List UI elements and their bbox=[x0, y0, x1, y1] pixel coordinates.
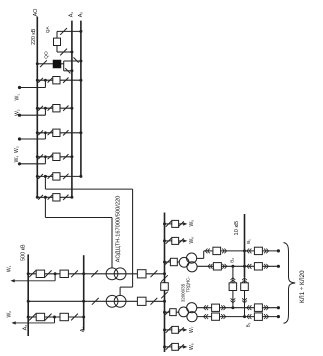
wire TRDNS1 S1 out bbox=[197, 257, 204, 259]
wire branch W8 bbox=[165, 346, 184, 348]
node bay 6 to bus A1 bbox=[70, 196, 73, 199]
disconnector bay 1 bus-side bbox=[38, 78, 43, 83]
transformer TRDNS1 secondary 1 bbox=[187, 253, 197, 263]
wire AT1 to bus3 bbox=[146, 273, 165, 275]
breaker bay 5 bbox=[53, 173, 60, 180]
svg-text:W1: W1 bbox=[15, 94, 21, 101]
breaker TRDNS1-S1 bbox=[213, 247, 221, 254]
node branch W6 bbox=[163, 239, 166, 242]
drawout chevrons bbox=[204, 305, 206, 310]
breaker W5 bbox=[172, 220, 179, 227]
line W1 with arrow bbox=[13, 280, 56, 282]
arrow W7 bbox=[183, 328, 187, 331]
breaker bus3 sectional bbox=[161, 283, 169, 291]
disconnector QA bottom bbox=[60, 49, 67, 56]
breaker TRDNS1 bbox=[170, 258, 177, 265]
breaker bbox=[60, 313, 68, 320]
breaker QA bbox=[54, 38, 61, 45]
wire 10kV feeder bbox=[245, 265, 279, 267]
node path A joins row bbox=[231, 306, 234, 309]
disconnector AT1 500kV-side bbox=[91, 270, 98, 277]
disconnector bay 4 second bbox=[48, 154, 53, 159]
node AT1-bus3 bbox=[163, 272, 166, 275]
breaker bbox=[60, 270, 68, 277]
drawout chevrons bbox=[266, 314, 268, 319]
disconnector bus3 section bottom bbox=[161, 292, 168, 299]
wire TRDNS2 S2 out bbox=[197, 316, 278, 318]
node branch W8 bbox=[163, 345, 166, 348]
drawout chevrons down bbox=[231, 301, 236, 303]
breaker W8 bbox=[172, 343, 179, 350]
disconnector bay 4 bus-side bbox=[38, 154, 43, 159]
disconnector W8 line side bbox=[179, 344, 184, 349]
breaker TRDNS2 bbox=[170, 309, 177, 316]
wire bay5 tap down bbox=[44, 176, 46, 189]
svg-text:В3: В3 bbox=[246, 322, 251, 327]
wire bay 6 row bbox=[37, 196, 72, 198]
node AT2 row on V1 bbox=[27, 300, 30, 303]
disconnector bay 6 line-side bbox=[63, 195, 68, 200]
wire QO upper branch to A2 bbox=[64, 60, 81, 62]
autotransformer AT2 winding 1 bbox=[106, 295, 118, 307]
node line W3 end bbox=[18, 137, 21, 140]
node feeder end bbox=[277, 265, 280, 268]
wire QO fork vertical bbox=[63, 61, 65, 71]
drawout chevrons bbox=[247, 305, 249, 310]
node reserve tap bbox=[231, 265, 234, 268]
wire to AT2 vertical bbox=[132, 189, 134, 287]
node bay 5 to bus A2 bbox=[79, 175, 82, 178]
disconnector bay 2 bus-side bbox=[38, 106, 43, 111]
wire AT2 to bus3 bbox=[146, 300, 165, 302]
svg-text:10 кВ: 10 кВ bbox=[234, 221, 240, 236]
bus A2 bbox=[80, 21, 82, 177]
svg-text:W2: W2 bbox=[15, 109, 21, 116]
bay 5: node on AO bus bbox=[36, 175, 39, 178]
wire 10kV feeder bbox=[245, 250, 279, 252]
disconnector QO left bbox=[40, 60, 47, 67]
svg-text:QA: QA bbox=[45, 26, 50, 34]
node on V2 bbox=[82, 316, 85, 319]
disconnector bus3 section top bbox=[161, 275, 168, 282]
svg-text:КЛ1 ÷ КЛ20: КЛ1 ÷ КЛ20 bbox=[299, 270, 306, 303]
svg-text:QO: QO bbox=[43, 51, 49, 59]
breaker TRDNS2-S2 bbox=[212, 313, 220, 320]
wire 500kV row bbox=[28, 316, 83, 318]
breaker TRDNS1-S2 bbox=[213, 263, 221, 270]
node QA-A1 bbox=[70, 51, 73, 54]
disconnector AT1 MV-side bbox=[151, 270, 158, 277]
wire QA top branch bbox=[57, 30, 81, 32]
line W2 with arrow bbox=[14, 322, 55, 324]
drawout chevrons bbox=[247, 314, 249, 319]
drawout chevrons bbox=[266, 305, 268, 310]
node line W1 end bbox=[18, 86, 21, 89]
wire bay6 tap down bbox=[44, 197, 46, 217]
node AT2-bus3 bbox=[163, 300, 166, 303]
node line W2 end bbox=[18, 114, 21, 117]
disconnector TRDNS1 bbox=[165, 260, 170, 265]
bay 1: node on AO bus bbox=[36, 79, 39, 82]
node S1-bus bbox=[243, 249, 246, 252]
disconnector QO-A1 bbox=[65, 68, 70, 73]
disconnector bay 5 second bbox=[48, 174, 53, 179]
wire into AT1 bbox=[111, 218, 113, 269]
drawout chevrons bbox=[247, 264, 249, 269]
breaker W6 bbox=[172, 237, 179, 244]
drawout chevrons down bbox=[242, 301, 247, 303]
wire line W2 bbox=[20, 114, 46, 116]
bus3 35kV section II bbox=[164, 301, 166, 352]
wire line W3 tap vertical bbox=[44, 133, 46, 139]
node feeder end bbox=[277, 315, 280, 318]
wire line W1 bbox=[20, 87, 46, 89]
node on V2 bbox=[82, 272, 85, 275]
disconnector bay 2 second bbox=[48, 106, 53, 111]
disconnector bay 4 line-side bbox=[63, 154, 68, 159]
svg-text:А1: А1 bbox=[69, 12, 75, 18]
disconnector QO-A2 bbox=[74, 57, 79, 62]
svg-text:W8: W8 bbox=[189, 343, 195, 350]
node QO-A1 bbox=[70, 69, 73, 72]
disconnector TRDNS2 bbox=[165, 310, 170, 315]
disconnector bay 5 bus-side bbox=[38, 174, 43, 179]
node feeder end bbox=[277, 306, 280, 309]
disconnector bay 1 line-side bbox=[63, 78, 68, 83]
svg-text:W3: W3 bbox=[14, 146, 20, 153]
breaker bay 1 bbox=[53, 77, 60, 84]
bus V2 (500 kV) bbox=[83, 255, 85, 330]
drawout chevrons bbox=[205, 249, 207, 254]
bus A1 bbox=[71, 21, 73, 198]
drawout chevrons bbox=[266, 249, 268, 254]
transformer TRDNS2 primary bbox=[179, 307, 189, 317]
autotransformer AT1 winding 1 bbox=[106, 268, 118, 280]
wire line W2 drop bbox=[54, 317, 56, 323]
svg-text:W5: W5 bbox=[189, 220, 195, 227]
wire line W1 tap vertical bbox=[44, 80, 46, 87]
disconnector bay 1 second bbox=[48, 78, 53, 83]
node branch W7 bbox=[163, 328, 166, 331]
wire branch W6 bbox=[165, 240, 184, 242]
disconnector bbox=[29, 314, 36, 321]
wire QO to fork bbox=[61, 63, 64, 65]
svg-text:32000/35: 32000/35 bbox=[180, 283, 185, 302]
node QO-A2 bbox=[79, 60, 82, 63]
wire TRDNS1 S2 out bbox=[197, 265, 244, 267]
wire line W2 tap vertical bbox=[44, 108, 46, 115]
node on V1 bbox=[27, 272, 30, 275]
node tap bbox=[54, 272, 57, 275]
wire TRDNS2 S1 out bbox=[197, 307, 279, 309]
node bay6 tap bbox=[44, 196, 47, 199]
node bay 5 tap junction bbox=[44, 175, 47, 178]
wire branch W5 bbox=[165, 223, 184, 225]
breaker feeder S2 bbox=[254, 313, 262, 321]
bay 3: node on AO bus bbox=[36, 131, 39, 134]
disconnector QA top bbox=[60, 28, 67, 35]
disconnector bay 3 bus-side bbox=[38, 130, 43, 135]
breaker bbox=[36, 270, 44, 277]
wire QA vertical bbox=[56, 31, 58, 38]
wire branch W7 bbox=[165, 329, 184, 331]
node feeder end bbox=[277, 249, 280, 252]
breaker QO (closed, filled) bbox=[53, 60, 61, 68]
node TRDNS1 branch bbox=[163, 261, 166, 264]
breaker path A bbox=[229, 283, 237, 291]
node QO-AO bbox=[36, 62, 39, 65]
svg-text:А2: А2 bbox=[78, 12, 84, 18]
wire bay 3 row bbox=[37, 132, 81, 134]
wire AT1 row right bbox=[84, 273, 138, 275]
svg-text:ТРДНС-: ТРДНС- bbox=[185, 276, 190, 293]
drawout chevrons bbox=[208, 264, 210, 269]
disconnector W7 line side bbox=[179, 327, 184, 332]
breaker TRDNS2-S1 bbox=[212, 304, 220, 311]
node AT2 row on V2 bbox=[82, 300, 85, 303]
drawout chevrons up bbox=[242, 278, 247, 280]
transformer TRDNS2 secondary 1 bbox=[187, 303, 197, 313]
bus3 35kV section I bbox=[164, 213, 166, 283]
drawout chevrons up bbox=[231, 278, 236, 280]
wire bus3 below sectional breaker bbox=[164, 290, 166, 301]
wire 500kV row bbox=[28, 273, 83, 275]
svg-text:В1: В1 bbox=[246, 239, 251, 244]
node bay5 tap bbox=[44, 175, 47, 178]
disconnector W5 line side bbox=[179, 221, 184, 226]
node QA-A2 bbox=[79, 30, 82, 33]
bay 6: node on AO bus bbox=[36, 196, 39, 199]
svg-text:АОДЦТН-167000/500/220: АОДЦТН-167000/500/220 bbox=[116, 196, 122, 263]
node S2-bus bbox=[243, 265, 246, 268]
disconnector W6 line side bbox=[179, 238, 184, 243]
autotransformer AT1 winding 2 bbox=[114, 268, 126, 280]
breaker AT2 MV-side bbox=[137, 297, 146, 305]
drawout chevrons bbox=[247, 249, 249, 254]
breaker bay 6 bbox=[53, 194, 60, 201]
drawout chevrons bbox=[224, 314, 226, 319]
bypass bus AO bbox=[36, 17, 38, 198]
disconnector bay 6 bus-side bbox=[38, 195, 43, 200]
wire to AT1 horizontal bbox=[45, 217, 112, 219]
wire line W1 drop bbox=[54, 274, 56, 281]
node line W4 end bbox=[18, 162, 21, 165]
wire line W4 tap vertical bbox=[44, 157, 46, 164]
svg-text:А4: А4 bbox=[80, 327, 86, 333]
breaker AT1 MV-side bbox=[137, 270, 146, 278]
breaker bay 2 bbox=[53, 105, 60, 112]
bus V1 (500 kV) bbox=[27, 254, 29, 336]
wire to AT2 horizontal bbox=[45, 188, 132, 190]
arrow W6 bbox=[183, 239, 187, 242]
disconnector bay 3 second bbox=[48, 130, 53, 135]
drawout chevrons bbox=[204, 314, 206, 319]
svg-text:W1: W1 bbox=[7, 265, 13, 272]
disconnector bay 5 line-side bbox=[63, 174, 68, 179]
node TRDNS2 branch bbox=[163, 311, 166, 314]
wire TRDNS2 branch bbox=[165, 311, 179, 313]
wire QA vertical lower bbox=[56, 46, 58, 53]
svg-text:W4: W4 bbox=[14, 156, 20, 163]
wire bay 4 row bbox=[37, 156, 72, 158]
node bay 3 to bus A2 bbox=[79, 131, 82, 134]
svg-text:W2: W2 bbox=[6, 311, 12, 318]
disconnector W6 bbox=[166, 238, 172, 244]
wire line W4 bbox=[20, 163, 46, 165]
disconnector bay 3 line-side bbox=[63, 130, 68, 135]
svg-text:500 кВ: 500 кВ bbox=[20, 244, 26, 261]
disconnector bbox=[71, 270, 78, 277]
disconnector W5 bbox=[166, 221, 172, 227]
arrow W5 bbox=[183, 222, 187, 225]
wire into AT2 bbox=[119, 287, 121, 296]
wire AT2 row bbox=[28, 300, 137, 302]
svg-text:W7: W7 bbox=[189, 326, 195, 333]
wire to AT2 elbow bbox=[120, 286, 133, 288]
transformer TRDNS1 primary bbox=[179, 257, 189, 267]
node tap bbox=[53, 316, 56, 319]
node branch W5 bbox=[163, 222, 166, 225]
svg-text:А3: А3 bbox=[22, 325, 28, 331]
brace cable group bbox=[284, 243, 296, 324]
transformer TRDNS2 secondary 2 bbox=[187, 312, 197, 322]
wire path B down bbox=[244, 277, 246, 316]
node bay 1 to bus A2 bbox=[79, 79, 82, 82]
node bay 4 tap junction bbox=[44, 155, 47, 158]
wire QO row bbox=[37, 63, 53, 65]
breaker W7 bbox=[172, 326, 179, 333]
wire TRDNS1 branch bbox=[165, 261, 180, 263]
wire QO lower branch to A1 bbox=[64, 70, 72, 72]
wire QA bottom branch bbox=[57, 51, 72, 53]
disconnector W7 bbox=[166, 327, 172, 333]
breaker bay 4 bbox=[53, 153, 60, 160]
svg-text:220 кВ: 220 кВ bbox=[31, 28, 37, 45]
wire bay 2 row bbox=[37, 107, 72, 109]
node bay 2 to bus A1 bbox=[70, 107, 73, 110]
wire bay 5 row bbox=[37, 175, 81, 177]
breaker bay 3 bbox=[53, 129, 60, 136]
drawout chevrons bbox=[224, 305, 226, 310]
disconnector bay 6 second bbox=[48, 195, 53, 200]
disconnector bbox=[29, 270, 36, 277]
svg-text:АО: АО bbox=[33, 8, 39, 17]
transformer TRDNS1 secondary 2 bbox=[187, 262, 197, 272]
disconnector bay 2 line-side bbox=[63, 106, 68, 111]
wire line W3 bbox=[20, 138, 46, 140]
node bay 3 tap junction bbox=[44, 131, 47, 134]
disconnector bbox=[45, 314, 52, 321]
node bay 1 tap junction bbox=[44, 79, 47, 82]
breaker feeder bbox=[254, 247, 262, 254]
disconnector bbox=[71, 314, 78, 321]
breaker feeder bbox=[254, 263, 262, 270]
disconnector bbox=[45, 270, 52, 277]
breaker path B bbox=[241, 283, 249, 291]
node on V1 bbox=[27, 316, 30, 319]
disconnector AT2 500kV-side bbox=[92, 298, 99, 305]
node bay 2 tap junction bbox=[44, 107, 47, 110]
wire bay 1 row bbox=[37, 79, 81, 81]
drawout chevrons bbox=[266, 264, 268, 269]
breaker feeder S1 bbox=[254, 304, 262, 312]
autotransformer AT2 winding 2 bbox=[114, 295, 126, 307]
bay 4: node on AO bus bbox=[36, 155, 39, 158]
disconnector W8 bbox=[166, 344, 172, 350]
arrow W8 bbox=[183, 345, 187, 348]
drawout chevrons bbox=[224, 249, 226, 254]
breaker bbox=[36, 313, 44, 320]
disconnector AT2 MV-side bbox=[151, 298, 158, 305]
node bay 4 to bus A1 bbox=[70, 155, 73, 158]
bus 10kV section B1 bbox=[244, 214, 246, 277]
node bay 6 tap junction bbox=[44, 196, 47, 199]
svg-text:W6: W6 bbox=[189, 237, 195, 244]
svg-text:В2: В2 bbox=[229, 258, 234, 263]
wire path A down bbox=[232, 266, 234, 307]
node path B joins row bbox=[243, 315, 246, 318]
drawout chevrons bbox=[225, 264, 227, 269]
bay 2: node on AO bus bbox=[36, 107, 39, 110]
